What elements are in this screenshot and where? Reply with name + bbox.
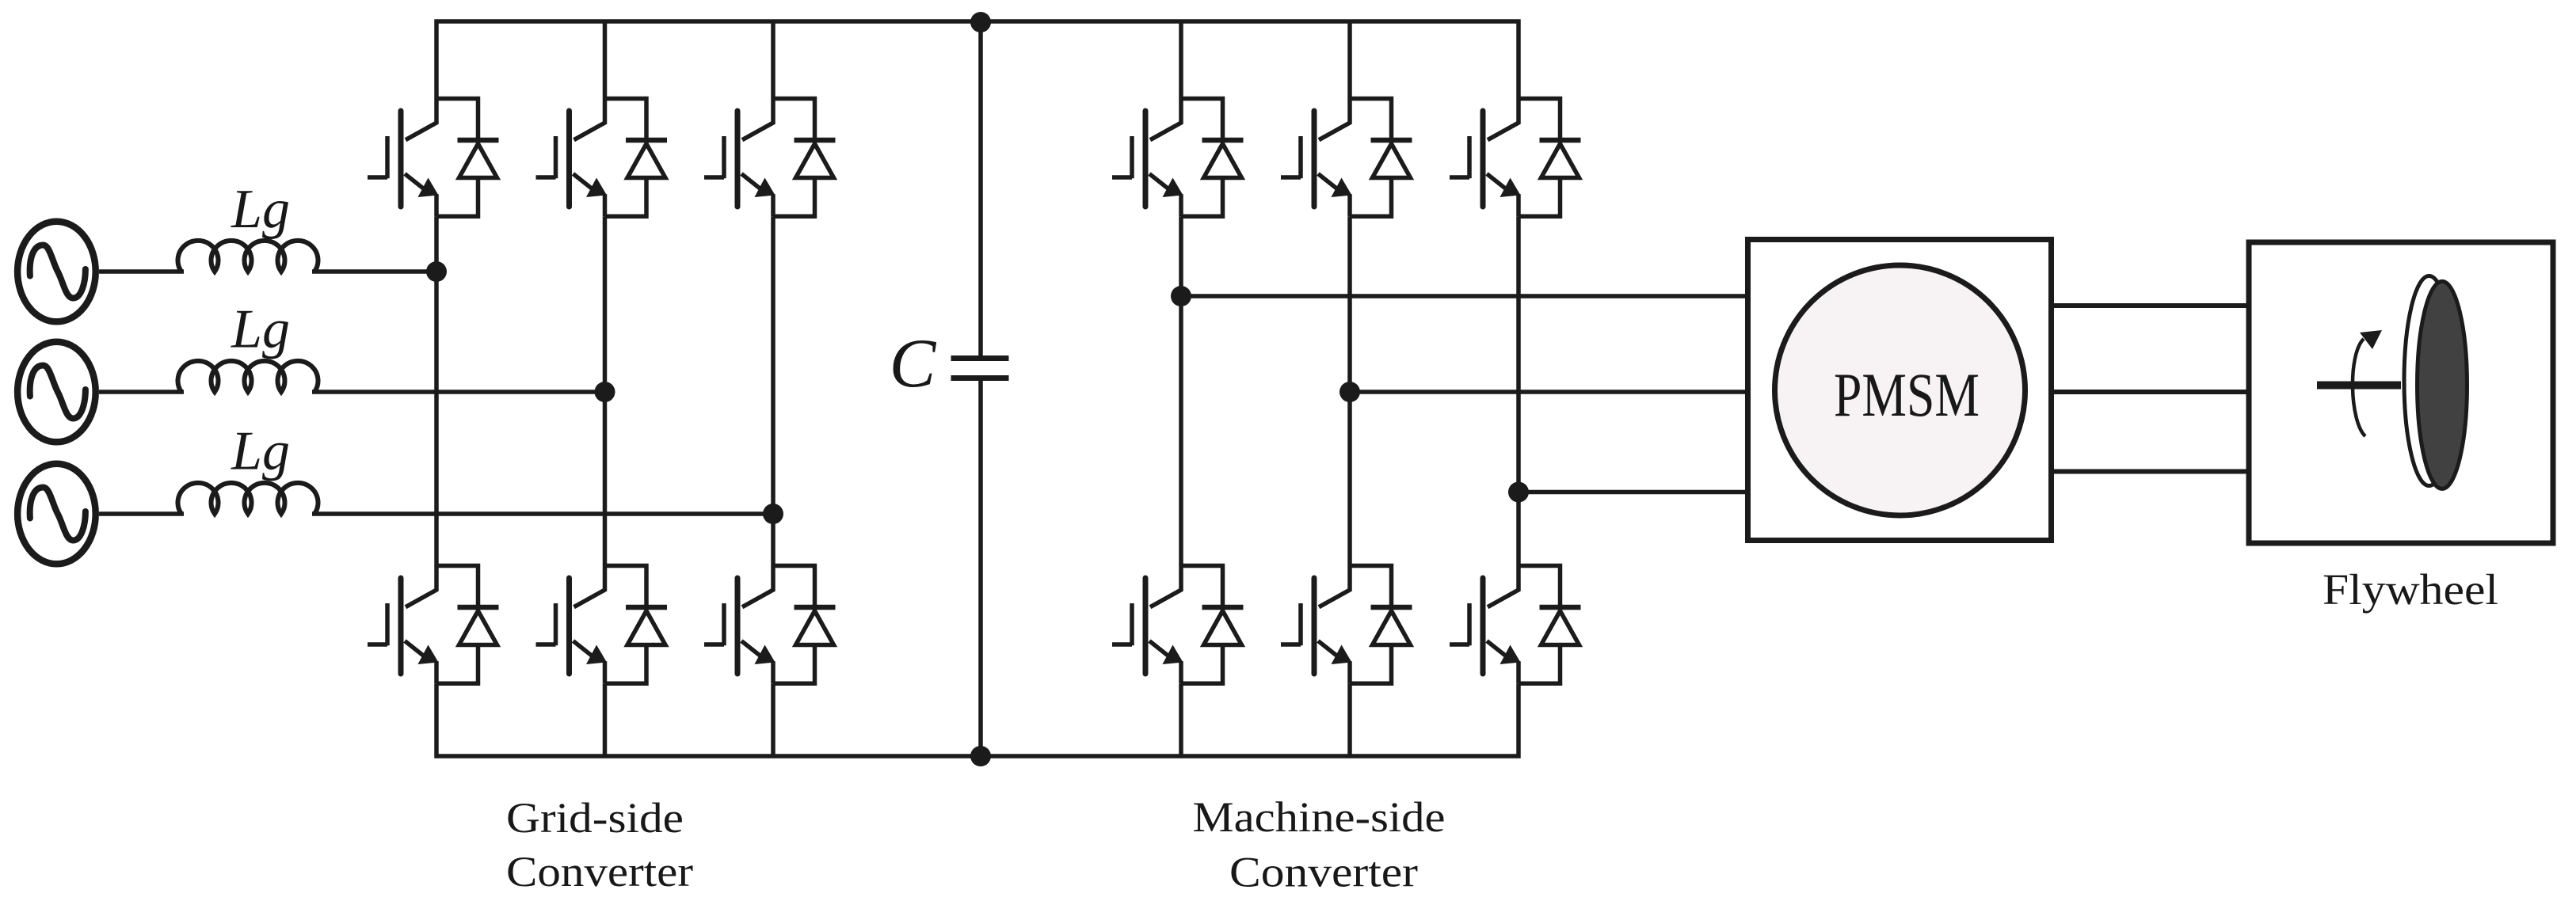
- svg-text:Machine-side: Machine-side: [1193, 793, 1446, 841]
- svg-text:Converter: Converter: [1229, 849, 1418, 896]
- svg-text:Flywheel: Flywheel: [2323, 565, 2498, 614]
- svg-text:Converter: Converter: [506, 848, 693, 895]
- svg-text:Lg: Lg: [231, 179, 290, 240]
- svg-text:Lg: Lg: [231, 299, 290, 360]
- svg-text:C: C: [890, 325, 937, 402]
- svg-text:Lg: Lg: [231, 421, 290, 482]
- svg-text:PMSM: PMSM: [1834, 360, 1980, 429]
- svg-text:Grid-side: Grid-side: [506, 794, 684, 842]
